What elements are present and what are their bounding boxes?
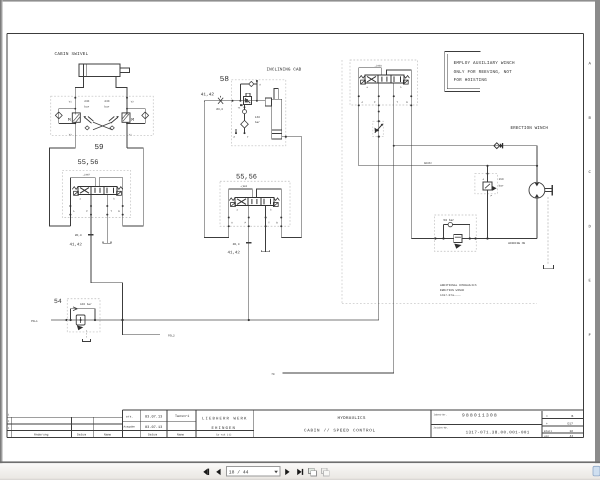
svg-text:B: B — [572, 415, 574, 418]
solenoid wedge 58 — [240, 104, 243, 106]
svg-text:M: M — [131, 117, 134, 123]
wire A-line left manifold — [70, 178, 95, 226]
wire motor supply — [536, 146, 538, 183]
junction dots main line — [65, 319, 249, 321]
svg-text:Ø0,8: Ø0,8 — [75, 234, 82, 237]
svg-text:Ø0,8: Ø0,8 — [233, 243, 240, 246]
valve 58 dashed enclosure — [232, 80, 286, 146]
valve 54 dashed enclosure — [67, 299, 100, 332]
svg-text:ONLY FOR REEVING, NOT: ONLY FOR REEVING, NOT — [454, 70, 513, 75]
next page button — [285, 469, 289, 475]
svg-text:Blatt: Blatt — [544, 430, 552, 433]
svg-text:Ø0,8: Ø0,8 — [216, 108, 223, 111]
first page button — [203, 469, 209, 476]
svg-text:+: + — [546, 423, 548, 426]
brake valve M right — [122, 113, 130, 122]
valve 50 bar body — [454, 234, 462, 242]
valve 55,56 left dashed enclosure — [62, 170, 130, 217]
svg-text:55,56: 55,56 — [78, 159, 99, 167]
wire P stub aux — [378, 84, 380, 121]
svg-text:ers.: ers. — [126, 416, 133, 419]
svg-text:MACM2: MACM2 — [424, 162, 432, 165]
valve 54 bypass loop — [71, 309, 95, 320]
svg-text:Ident-Nr.: Ident-Nr. — [434, 413, 448, 416]
wire T-line 55,56 left — [106, 194, 108, 243]
svg-text:54: 54 — [54, 298, 62, 305]
svg-text:44: 44 — [570, 435, 574, 438]
orifice X on supply — [218, 96, 223, 104]
svg-text:Ca-ruh (1): Ca-ruh (1) — [216, 434, 232, 437]
last page button — [297, 469, 303, 475]
filter diamond 58 — [241, 120, 249, 128]
svg-text:Ausgabe: Ausgabe — [124, 425, 136, 428]
svg-text:1317-071.38.00.001-001: 1317-071.38.00.001-001 — [466, 431, 530, 436]
junction dots ports middle manifold — [228, 217, 283, 228]
svg-text:Änderung: Änderung — [34, 433, 49, 437]
junction dots winch bottom line — [434, 237, 488, 239]
tank symbol winch drain — [544, 265, 554, 269]
check valve left of block 59 — [55, 112, 62, 119]
page view icon 1 — [309, 468, 317, 476]
wire B-line middle manifold — [256, 189, 281, 238]
valve block 59 dashed enclosure — [51, 96, 154, 135]
directional valve 55,56 left — [72, 186, 122, 195]
svg-text:bar: bar — [499, 184, 504, 188]
svg-text:Twescr1: Twescr1 — [175, 414, 189, 419]
crossover relief lines — [93, 122, 112, 130]
valve 55,56 middle dashed enclosure — [220, 181, 290, 226]
svg-text:Datum: Datum — [77, 434, 86, 437]
wire left counterbalance column — [59, 96, 145, 148]
svg-text:ADDITIONAL HYDRAULICS: ADDITIONAL HYDRAULICS — [440, 284, 477, 287]
svg-text:Name: Name — [177, 434, 184, 437]
window chrome: left border — [0, 0, 2, 480]
relief gauge column 58 — [236, 104, 245, 133]
svg-text:→(007: →(007 — [83, 174, 91, 177]
wire MACM2 return line — [359, 165, 537, 167]
svg-text:D17: D17 — [568, 423, 574, 426]
page view icon 2 (disabled) — [321, 468, 329, 476]
port letters aux — [362, 101, 409, 104]
orifice 0,8 middle — [246, 242, 252, 244]
wire P rail down to main line — [378, 83, 380, 320]
svg-text:→(003: →(003 — [240, 185, 248, 188]
node V2 — [126, 97, 128, 99]
throttle arrows right — [109, 116, 119, 123]
wire cylinder right port — [116, 77, 127, 97]
window chrome: right gray band — [595, 0, 600, 480]
svg-text:von: von — [544, 435, 549, 438]
loop junction dots block 59 — [74, 108, 128, 125]
motor drain dashed to tank — [547, 197, 549, 265]
wire T stub aux — [393, 83, 395, 146]
wire B-line left manifold — [99, 178, 122, 226]
junction nodes on supply — [232, 100, 258, 102]
svg-text:bar: bar — [104, 104, 109, 108]
title block texts — [8, 413, 449, 436]
anticav check right — [110, 126, 114, 130]
directional valve 55,56 middle — [229, 198, 279, 207]
svg-text:bar: bar — [255, 120, 260, 124]
additional hydraulics dashed boundary — [342, 60, 537, 303]
svg-text:Zeichn-Nr.: Zeichn-Nr. — [434, 426, 449, 429]
wire P-line 55,56 left — [91, 194, 160, 334]
page bottom shadow line — [0, 461, 600, 463]
valve 54 body — [76, 315, 85, 325]
svg-text:50 bar: 50 bar — [443, 218, 454, 222]
wire B top routing aux valve — [387, 70, 412, 239]
winch motor — [529, 182, 545, 198]
wire cylinder left port — [75, 77, 83, 97]
svg-text:150: 150 — [499, 178, 504, 181]
supply wire to valve 58 — [205, 100, 265, 102]
tank symbol left — [103, 242, 111, 244]
swivel cylinder body — [79, 64, 129, 77]
svg-text:18: 18 — [570, 430, 574, 433]
zone letters right margin — [589, 62, 592, 339]
note ADDITIONAL HYDRAULICS — [440, 284, 477, 297]
svg-text:58: 58 — [220, 75, 230, 84]
port letters left manifold — [73, 210, 120, 213]
svg-text:03.07.13: 03.07.13 — [145, 415, 162, 420]
cartridge valve 58 body — [243, 93, 251, 104]
wire to tank 54 — [86, 330, 88, 339]
svg-text:FOR HOISTING: FOR HOISTING — [454, 78, 488, 83]
svg-text:41,42: 41,42 — [228, 250, 241, 255]
svg-text:EMPLOY AUXILIARY WINCH: EMPLOY AUXILIARY WINCH — [454, 61, 515, 66]
check valve bypass 58 — [240, 80, 257, 101]
wire T-line 55,56 middle — [265, 206, 267, 252]
svg-text:ERECTION WINCH: ERECTION WINCH — [440, 289, 465, 292]
check valve right of block 59 — [142, 112, 149, 119]
flow control valve on P rail — [373, 121, 384, 136]
svg-text:M: M — [68, 117, 71, 123]
svg-text:59: 59 — [95, 143, 105, 152]
svg-text:Name: Name — [104, 434, 111, 437]
junction dots ports aux — [358, 95, 413, 106]
wire A top routing aux valve — [359, 68, 381, 166]
junction dots ports left manifold — [69, 205, 123, 216]
svg-text:03.07.13: 03.07.13 — [145, 425, 162, 430]
svg-text:INCLINING CAB: INCLINING CAB — [267, 67, 302, 72]
svg-text:988011308: 988011308 — [462, 413, 498, 419]
wire T rail to check valve line — [394, 145, 537, 147]
svg-text:41,42: 41,42 — [70, 243, 83, 248]
svg-text:PSL2: PSL2 — [168, 335, 175, 338]
wire relief valve column — [487, 166, 489, 239]
svg-text:55,56: 55,56 — [236, 174, 257, 182]
wire winch bottom line — [411, 238, 537, 240]
wire T rail down to port 78 — [283, 146, 394, 373]
valve 50 bar drain arrow — [454, 244, 461, 249]
title block lines — [7, 410, 584, 438]
svg-text:160: 160 — [255, 116, 260, 119]
port letters middle manifold — [231, 221, 278, 224]
svg-text:41,42: 41,42 — [201, 92, 215, 97]
manifold outline cabin swivel — [50, 148, 144, 226]
orifice 0,8 left — [88, 234, 94, 236]
tilt cylinder — [272, 88, 282, 139]
manifold outline inclining cab — [204, 101, 301, 238]
svg-text:78: 78 — [271, 373, 275, 376]
check arrow on loop — [73, 307, 77, 311]
aux winch valve dashed enclosure — [350, 60, 418, 105]
page number combo box — [226, 467, 280, 477]
anticav check left — [85, 126, 89, 130]
relief valve 150 bar body — [483, 182, 492, 190]
tilt cylinder port stub — [265, 98, 271, 106]
valve 50 bar dashed enclosure — [434, 215, 476, 251]
brake valve M left — [72, 113, 80, 122]
svg-text:WINDING ON: WINDING ON — [508, 242, 525, 245]
svg-text:EHINGEN: EHINGEN — [212, 426, 237, 431]
throttle arrows left — [83, 116, 93, 123]
window chrome: top border — [0, 0, 600, 2]
svg-text:ERECTION WINCH: ERECTION WINCH — [511, 126, 549, 131]
wire motor return — [536, 198, 538, 239]
previous page button — [216, 469, 220, 475]
svg-text:HYDRAULICS: HYDRAULICS — [338, 416, 366, 421]
svg-text:=: = — [546, 415, 548, 418]
svg-text:bar: bar — [84, 104, 89, 108]
svg-text:Datum: Datum — [148, 434, 157, 437]
motor shaft — [545, 185, 553, 195]
warning note box — [445, 52, 481, 92]
partial blue button at right edge — [593, 466, 600, 476]
svg-text:100 bar: 100 bar — [80, 302, 92, 306]
directional valve aux winch — [359, 75, 409, 84]
svg-text:18 / 44: 18 / 44 — [229, 470, 249, 476]
svg-text:PSL1: PSL1 — [31, 320, 38, 323]
svg-text:230: 230 — [104, 100, 109, 103]
svg-text:→(028: →(028 — [375, 64, 383, 67]
wire P-line 55,56 middle down to main line — [248, 206, 250, 321]
bypass loop 50 bar valve — [444, 225, 470, 239]
tank symbol middle — [261, 250, 270, 252]
wire cylinder bottom port — [282, 137, 302, 238]
relief valve 150 bar dashed enclosure — [475, 174, 498, 194]
tank symbol 54 — [83, 339, 91, 342]
node V1 — [74, 97, 76, 99]
svg-text:230: 230 — [84, 100, 89, 103]
valve 54 drain arrow — [77, 325, 83, 330]
svg-text:LIEBHERR WERK: LIEBHERR WERK — [202, 416, 248, 421]
svg-text:_____: _____ — [452, 293, 461, 296]
check valve on winch line — [494, 143, 500, 149]
svg-text:CABIN SWIVEL: CABIN SWIVEL — [55, 52, 89, 57]
wire A-line middle manifold — [229, 189, 253, 238]
